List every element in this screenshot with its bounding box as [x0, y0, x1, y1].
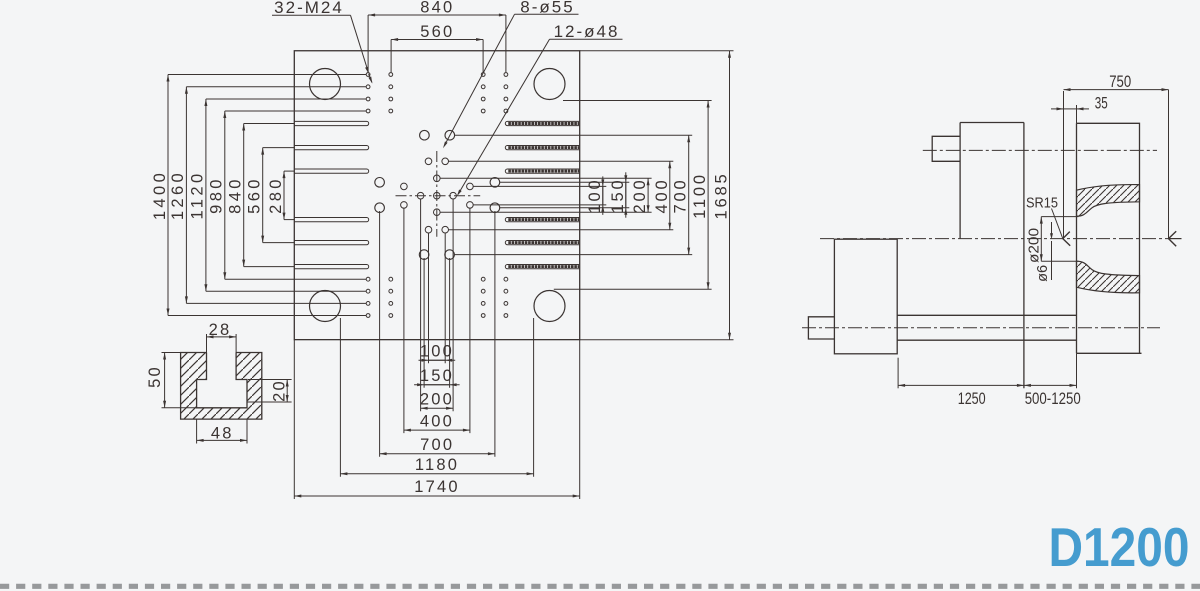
svg-text:280: 280 [267, 176, 285, 214]
side view moving platen [959, 123, 961, 239]
right extension leader lines [473, 185, 606, 187]
dimension 1685 (right) [729, 51, 731, 340]
dimension dia200 [1040, 217, 1042, 262]
dimension 150 (right) [625, 182, 627, 207]
left T-slot [294, 218, 368, 222]
dimension 560 (left) [262, 148, 264, 243]
dimension 35 [1064, 108, 1077, 110]
dimension 840 (left) [243, 124, 245, 267]
svg-text:SR15: SR15 [1026, 195, 1058, 211]
left T-slot [294, 121, 368, 125]
dimension 1120 (left) [205, 99, 207, 291]
dimension 100 (bottom) [429, 359, 446, 361]
right T-slot (hatched) [505, 121, 579, 125]
svg-text:1260: 1260 [169, 170, 187, 220]
tie bar hole 3 [310, 291, 341, 322]
dimension 150 (bottom) [424, 384, 450, 386]
svg-text:12-ø48: 12-ø48 [554, 22, 620, 41]
recess lower band (hatched) [1077, 261, 1140, 293]
center line vertical [436, 151, 438, 237]
svg-text:1100: 1100 [691, 172, 709, 219]
dimension 1250 / 500-1250 [898, 384, 1076, 386]
dimension 750 [1064, 89, 1169, 91]
tie bar centerline [923, 149, 1157, 151]
tie bar hole 2 [534, 69, 565, 100]
dimension 200 (right) [647, 178, 649, 212]
dimension 280 (left) [283, 171, 285, 220]
nozzle seat chevron (left) [1063, 232, 1070, 239]
svg-text:D1200: D1200 [1049, 516, 1190, 578]
left T-slot [294, 265, 368, 269]
right T-slot (hatched) [505, 169, 579, 173]
dimension 400 (bottom) [404, 429, 470, 431]
dimension 1180 (bottom) [340, 473, 533, 475]
svg-text:400: 400 [420, 412, 454, 430]
detail dim 20 [286, 380, 288, 403]
dimension 1400 (left) [167, 75, 169, 316]
svg-text:ø200: ø200 [1027, 228, 1043, 263]
svg-text:20: 20 [271, 379, 289, 402]
dimension 700 (bottom) [380, 453, 495, 455]
detail dim 50 [164, 353, 166, 408]
svg-text:1400: 1400 [151, 170, 169, 220]
svg-text:560: 560 [246, 176, 264, 214]
nozzle axis arrow (chevron right) [1169, 231, 1177, 238]
barrel lines [897, 314, 1076, 316]
dimension 100 (right) [602, 186, 604, 205]
dimension 400 (right) [669, 161, 671, 229]
right T-slot (hatched) [505, 241, 579, 245]
dimension 1260 (left) [185, 87, 187, 304]
injection unit block [834, 239, 897, 354]
svg-text:1120: 1120 [189, 170, 207, 219]
svg-text:840: 840 [420, 0, 454, 16]
right T-slot (hatched) [505, 146, 579, 150]
left T-slot [294, 241, 368, 245]
svg-text:200: 200 [631, 178, 649, 214]
8 x dia55 holes [420, 130, 430, 140]
recess upper band (hatched) [1077, 185, 1140, 217]
svg-text:50: 50 [146, 365, 164, 388]
detail dim 48 [197, 439, 247, 441]
dimension 980 (left) [224, 111, 226, 279]
svg-text:400: 400 [653, 178, 671, 214]
svg-text:700: 700 [672, 178, 690, 214]
center hole [434, 192, 441, 199]
dotted footer line [0, 584, 1200, 589]
svg-text:150: 150 [420, 367, 454, 385]
tie bar end stub [932, 136, 960, 161]
center line horizontal [396, 195, 481, 197]
right T-slot (hatched) [505, 218, 579, 222]
svg-text:1685: 1685 [713, 172, 731, 220]
svg-text:560: 560 [420, 23, 454, 41]
dimension 200 (bottom) [421, 407, 454, 409]
dimension 1740 (bottom) [294, 495, 579, 497]
injection unit stub [808, 317, 834, 339]
left T-slot [294, 169, 368, 173]
svg-text:980: 980 [208, 176, 226, 214]
32 x M24 tapped holes [366, 73, 370, 77]
dimension 1100 (right) [707, 101, 709, 290]
fixed platen side view [1077, 123, 1142, 353]
svg-text:1740: 1740 [414, 478, 460, 496]
svg-text:100: 100 [420, 342, 454, 360]
svg-text:840: 840 [227, 176, 245, 214]
bottom extension lines [293, 340, 295, 499]
detail dim 28 [207, 336, 237, 338]
machine axis centerline [802, 327, 1160, 329]
platen front view outline [294, 51, 579, 340]
dimension 700 (right) [688, 135, 690, 254]
svg-text:1250: 1250 [958, 390, 986, 408]
nozzle centerline [820, 238, 1172, 240]
left T-slot [294, 146, 368, 150]
tie bar hole 1 [310, 69, 341, 100]
svg-text:200: 200 [420, 390, 454, 408]
left extension leader lines [168, 74, 366, 76]
12 x dia48 holes [425, 158, 432, 165]
svg-text:1180: 1180 [415, 456, 459, 474]
svg-text:500-1250: 500-1250 [1025, 390, 1081, 408]
dimension 840 (top) [368, 14, 506, 16]
right T-slot (hatched) [505, 265, 579, 269]
svg-text:48: 48 [211, 425, 234, 443]
dimension 560 (top) [391, 39, 483, 41]
svg-text:28: 28 [209, 321, 232, 339]
svg-text:750: 750 [1109, 73, 1131, 91]
T-slot detail section (hatched) [181, 353, 262, 420]
svg-text:35: 35 [1095, 94, 1108, 112]
svg-text:ø6: ø6 [1035, 265, 1051, 282]
svg-text:32-M24: 32-M24 [274, 0, 344, 17]
svg-text:700: 700 [420, 436, 454, 454]
tie bar hole 4 [534, 291, 565, 322]
